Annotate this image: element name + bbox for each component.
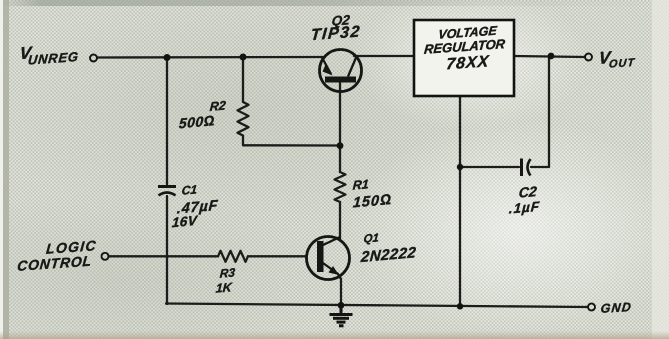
svg-text:78XX: 78XX: [446, 52, 491, 73]
svg-text:TIP32: TIP32: [310, 23, 362, 45]
wire C2 left lead: [460, 166, 519, 168]
junction V_UNREG / R2: [240, 54, 247, 61]
svg-text:.1µF: .1µF: [508, 199, 540, 217]
wire R3 to Q1 base: [248, 255, 307, 257]
terminal LOGIC CONTROL: [102, 253, 109, 260]
transistor Q2 (PNP TIP32): [320, 50, 362, 92]
ground symbol: [330, 305, 353, 326]
wire C1 branch upper: [166, 58, 168, 186]
transistor Q1 (NPN 2N2222): [307, 237, 350, 280]
junction V_UNREG / C1: [164, 54, 171, 61]
junction base node R2/R1: [337, 142, 344, 149]
svg-text:R1: R1: [352, 177, 369, 192]
wire R1 to Q1 collector: [339, 202, 341, 239]
wire R2 top lead: [242, 57, 244, 102]
wire regulator output to V_OUT terminal: [514, 56, 585, 57]
junction V_OUT / C2: [548, 53, 555, 60]
capacitor C2: [522, 159, 531, 177]
resistor R1: [335, 172, 346, 202]
svg-text:R3: R3: [219, 265, 236, 280]
svg-text:500Ω: 500Ω: [178, 112, 215, 131]
label V_OUT: [597, 46, 637, 71]
label LOGIC CONTROL: [14, 237, 99, 274]
svg-text:16V: 16V: [171, 213, 198, 230]
wire Q2 collector to regulator input: [354, 55, 414, 57]
capacitor C1: [158, 187, 176, 196]
terminal V_UNREG: [90, 55, 97, 62]
wire LOGIC CONTROL to R3: [109, 255, 219, 257]
resistor R3: [218, 251, 248, 262]
wire C1 branch lower: [166, 196, 168, 304]
terminal GND: [588, 304, 595, 311]
junction regulator ground / C2: [457, 164, 463, 170]
junction ground bus / Q1 emitter: [338, 302, 345, 309]
wire Q1 emitter to ground bus: [338, 274, 341, 305]
wire base node to R1: [339, 146, 341, 173]
svg-text:GND: GND: [600, 300, 633, 316]
wire R2 bottom to base node: [243, 136, 340, 146]
terminal V_OUT: [585, 54, 592, 61]
junction ground bus / regulator: [457, 303, 463, 309]
voltage regulator U1 box: [414, 20, 514, 96]
wire ground bus: [166, 304, 588, 308]
svg-text:C2: C2: [518, 183, 537, 201]
wire regulator ground lead: [459, 96, 461, 306]
svg-text:Q1: Q1: [363, 232, 379, 245]
wire V_UNREG to Q2 emitter: [97, 56, 325, 59]
svg-text:OUT: OUT: [608, 57, 635, 71]
wire C2 right lead to V_OUT node: [531, 56, 551, 167]
svg-text:C1: C1: [181, 182, 198, 197]
label VOLTAGE REGULATOR 78XX: [422, 23, 509, 75]
label V_UNREG: [18, 40, 81, 68]
resistor R2: [238, 102, 249, 136]
wire Q2 base lead: [339, 80, 341, 146]
svg-text:1K: 1K: [215, 280, 233, 296]
